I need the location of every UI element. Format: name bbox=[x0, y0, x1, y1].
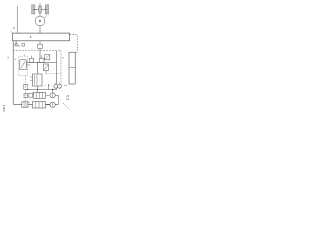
wire: down to pressure valve bbox=[37, 63, 39, 74]
stub below variable valve bbox=[45, 71, 47, 74]
tiny box left of filter A bbox=[29, 93, 33, 97]
filter B (bars box) bbox=[33, 102, 46, 109]
small box left row B bbox=[22, 102, 28, 107]
pump stems bbox=[55, 83, 57, 85]
solenoid S1 pilot tick bbox=[31, 56, 33, 59]
pressure valve internals bbox=[34, 75, 36, 85]
dashed small box around regulator 2 bbox=[19, 56, 28, 75]
filter A (bars box) bbox=[33, 92, 45, 98]
arrow B bbox=[46, 104, 49, 106]
motor B circle bbox=[50, 102, 55, 107]
wire: mid horizontal rail bbox=[26, 62, 57, 64]
wire: lower horizontal rail bbox=[26, 89, 57, 91]
leader diagonal bottom right bbox=[63, 103, 70, 110]
tiny box beside 6 bbox=[22, 43, 25, 46]
wire: center line to solenoid bbox=[39, 49, 41, 59]
stub right of regulator bbox=[26, 64, 30, 66]
left chain small valve bbox=[24, 85, 28, 90]
valve V1: duct wall right (hatched) bbox=[45, 5, 48, 14]
governor G1 circle bbox=[35, 16, 45, 26]
junction dot bbox=[52, 89, 53, 90]
solenoid S2 bbox=[40, 58, 44, 62]
wire: right vertical rail bbox=[56, 51, 58, 90]
wire: bottom bus bbox=[13, 103, 58, 105]
wire: right return bbox=[55, 95, 58, 104]
valve V1: shaft line bbox=[33, 8, 47, 10]
dashed boundary top bbox=[13, 50, 61, 52]
valve V1: duct wall left (hatched) bbox=[32, 5, 35, 14]
leader to numeral 1 bbox=[45, 15, 47, 18]
regulator 2 box with arrow bbox=[20, 60, 26, 70]
spring ticks left bbox=[30, 76, 33, 78]
svg-text:FIG.1: FIG.1 bbox=[2, 104, 6, 111]
dashed boundary right bbox=[60, 51, 62, 89]
wire: intake pipe left vertical bbox=[17, 6, 19, 33]
stub from box to element 6 bbox=[15, 41, 17, 44]
wire: drop to filter A bbox=[37, 90, 39, 93]
leader to box corner bbox=[10, 31, 12, 33]
valve V1: stem bbox=[39, 3, 41, 16]
actuator cylinder box bbox=[69, 52, 75, 84]
pilot stub at rail bbox=[48, 85, 50, 90]
junction dot mid rail bbox=[37, 62, 38, 63]
dashed pilot connector bbox=[46, 73, 61, 75]
left chain orifice bbox=[24, 94, 28, 98]
valve V1: plate bbox=[39, 6, 41, 12]
pressure valve box bbox=[33, 74, 43, 86]
drain element 6 circle bbox=[15, 44, 18, 47]
governor G1 center dot bbox=[39, 20, 41, 22]
wire: center line below box bbox=[39, 41, 41, 44]
actuator piston mark bbox=[69, 67, 75, 69]
arrow A bbox=[46, 94, 49, 96]
solenoid S2 pilot tick bbox=[41, 55, 43, 58]
pilot box upper right bbox=[45, 55, 50, 60]
actuator bottom tick bbox=[64, 84, 68, 86]
restrictor on center line bbox=[38, 44, 42, 48]
variable valve with arrow bbox=[44, 64, 49, 71]
metering unit box 8 bbox=[13, 33, 70, 41]
wire: valve to lower rail bbox=[37, 86, 39, 90]
junction dot bbox=[37, 89, 38, 90]
gear pump circles bbox=[54, 84, 58, 88]
wire: governor to metering box bbox=[39, 26, 41, 33]
motor A circle bbox=[50, 93, 55, 98]
dashed left drop bbox=[25, 76, 27, 101]
solenoid S1 bbox=[29, 58, 33, 62]
wire: drop to motor A bbox=[52, 90, 54, 93]
wire: left main pipe down bbox=[12, 41, 14, 105]
dashed link to actuator bbox=[70, 35, 78, 53]
